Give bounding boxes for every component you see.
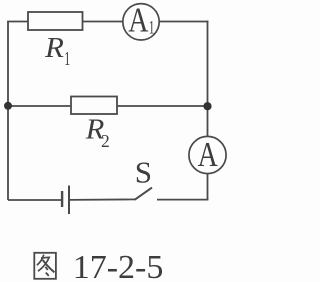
label A1 (inside ammeter): [128, 1, 154, 39]
wire middle left (node to R2): [8, 105, 71, 107]
node left junction dot: [4, 102, 12, 110]
label R1: [44, 32, 70, 70]
battery positive plate (long): [68, 186, 70, 215]
battery negative plate (short): [61, 191, 63, 207]
svg-text:17-2-5: 17-2-5: [73, 249, 164, 282]
wire bottom right (corner to switch): [157, 199, 208, 201]
caption character 图 (drawn): [34, 253, 56, 279]
wire R1 to A1: [83, 21, 123, 23]
wire top-left (corner to R1): [7, 21, 28, 23]
svg-text:S: S: [135, 154, 152, 189]
node right junction dot: [203, 102, 211, 110]
ammeter A1: [123, 4, 159, 40]
wire battery to switch pivot: [70, 198, 136, 201]
svg-text:2: 2: [101, 131, 110, 151]
wire right vertical lower (ammeter A to bottom-right corner): [207, 174, 209, 200]
wire A1 to top-right corner: [159, 21, 208, 23]
svg-text:A: A: [198, 135, 218, 173]
svg-text:R: R: [44, 32, 64, 64]
resistor R1: [28, 12, 83, 30]
resistor R2: [71, 97, 117, 115]
svg-text:A: A: [128, 1, 148, 39]
ammeter A: [189, 136, 226, 173]
label R2: [85, 114, 110, 151]
wire middle right (R2 to right node): [117, 105, 208, 107]
svg-text:1: 1: [64, 47, 70, 70]
switch S blade: [135, 188, 152, 200]
wire right vertical upper (corner to ammeter A): [207, 21, 209, 137]
wire left vertical (top-left corner down to bottom-left corner): [7, 22, 9, 201]
svg-text:1: 1: [149, 18, 155, 39]
wire bottom left (corner to battery): [8, 199, 61, 201]
